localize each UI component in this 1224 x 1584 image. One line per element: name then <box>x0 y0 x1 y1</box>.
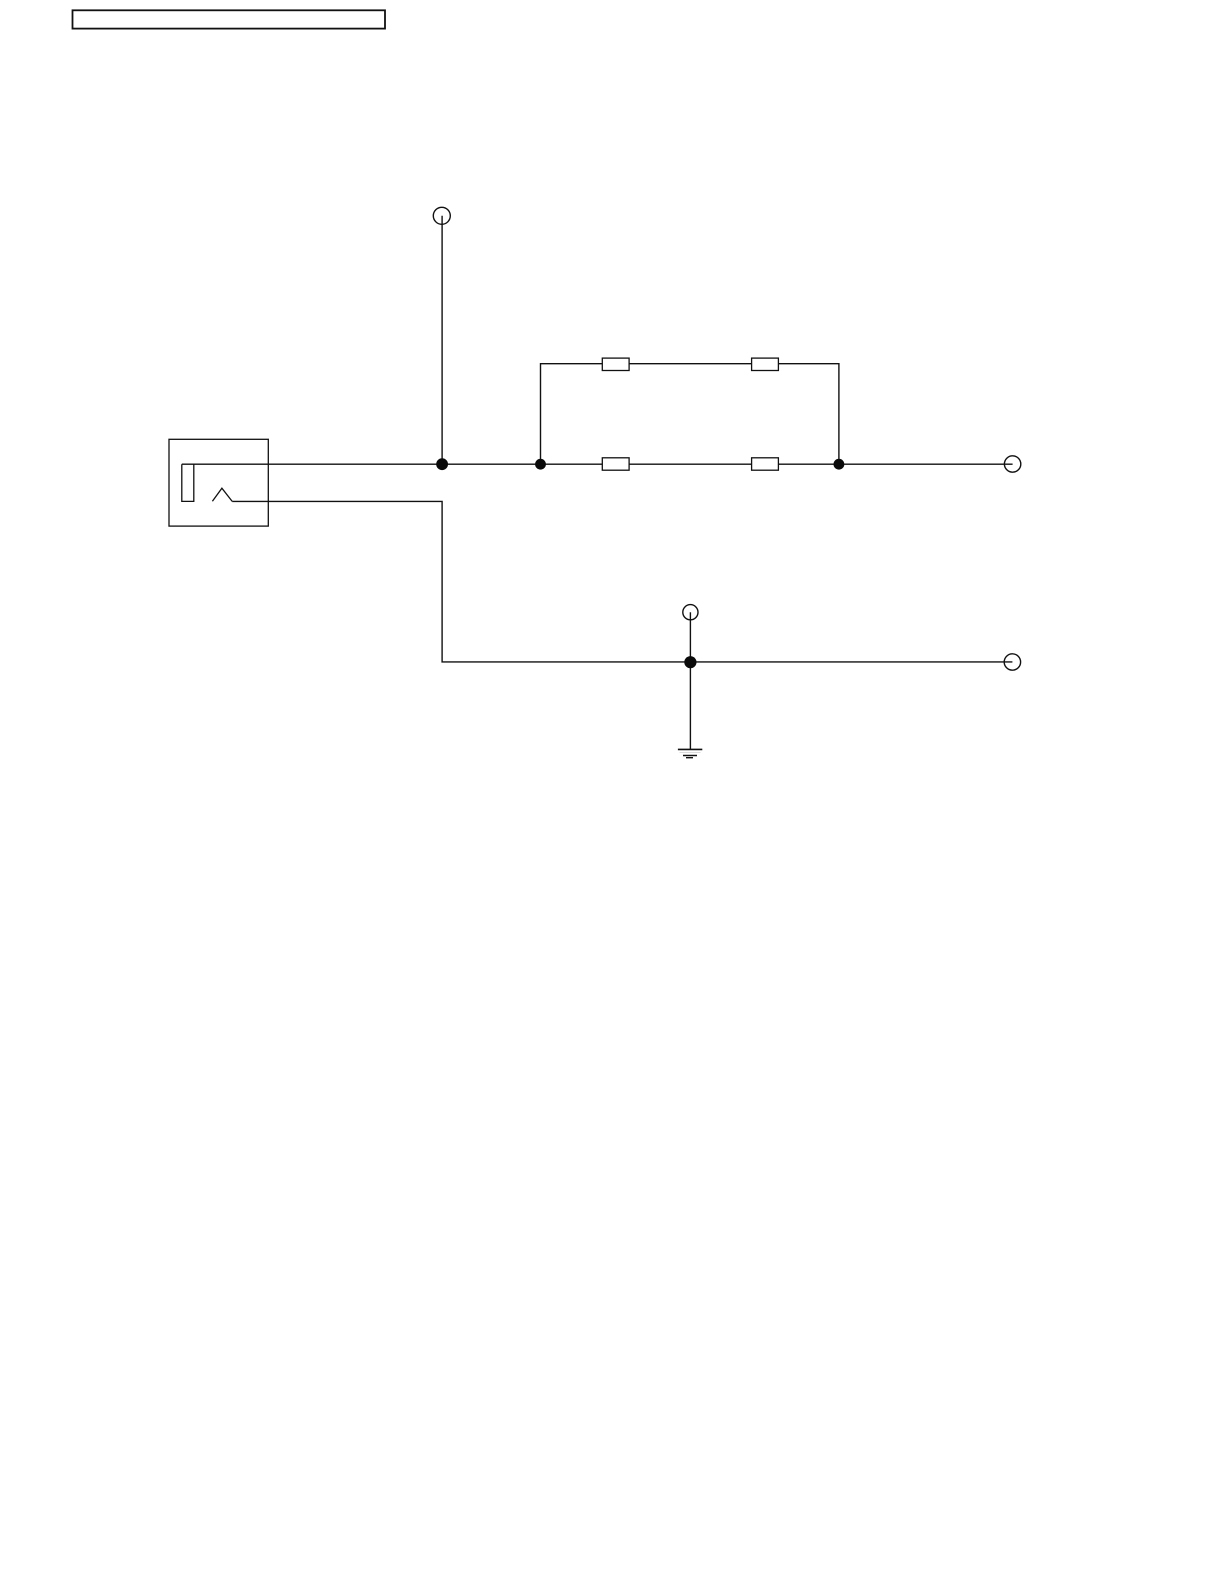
junction dot C (branch right) <box>834 459 845 470</box>
terminal circle (right output upper) <box>1004 456 1020 472</box>
ground bar faint <box>680 752 701 754</box>
resistor R-top-1 <box>602 358 629 370</box>
wire: parallel branch loop <box>541 364 839 465</box>
wire: top terminal vertical <box>441 216 443 464</box>
jack tip contact (U shape) <box>182 464 194 501</box>
resistor R-top-2 <box>752 358 779 370</box>
wire: tip to right output terminal <box>182 463 1013 465</box>
ground bar 2 <box>683 755 697 757</box>
terminal circle (mid) <box>683 605 698 620</box>
jack connector J1 outer box <box>169 439 268 526</box>
junction dot A (vertical feed on main wire) <box>436 458 448 470</box>
wire: mid terminal down through junction to ground <box>689 612 691 749</box>
ground bar 3 <box>686 757 693 759</box>
resistor R-bot-1 <box>602 458 629 470</box>
junction dot D (lower wire) <box>684 656 696 668</box>
jack sleeve contact chevron <box>212 488 232 501</box>
wire: sleeve down and right to lower output terminal <box>232 501 1012 662</box>
resistor R-bot-2 <box>752 458 779 470</box>
junction dot B (branch left) <box>535 459 546 470</box>
terminal circle (top input) <box>433 207 450 224</box>
title box (empty) <box>73 10 386 28</box>
terminal circle (right output lower) <box>1004 654 1020 670</box>
ground bar 1 <box>678 748 702 750</box>
